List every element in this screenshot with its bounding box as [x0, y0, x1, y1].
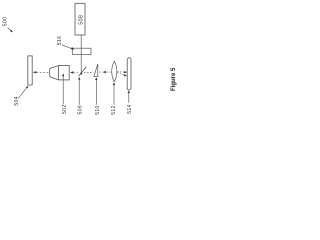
label 502 [62, 74, 68, 115]
mirror 506 diagonal [79, 67, 87, 77]
label 506 [77, 77, 83, 115]
label 504 [14, 86, 29, 106]
plate 504 [28, 56, 32, 85]
svg-text:502: 502 [62, 104, 68, 114]
lens 512 [112, 61, 117, 82]
svg-text:Figure 5: Figure 5 [171, 67, 177, 91]
dashed beam 502 to plate 504 with arrowhead [33, 71, 50, 73]
svg-text:508: 508 [78, 15, 84, 25]
svg-text:510: 510 [95, 105, 101, 115]
label 512 [111, 82, 117, 114]
prism 510 [94, 64, 98, 76]
wire: beam from 508 down to 516 [80, 35, 82, 48]
plate 514 [127, 58, 131, 90]
svg-text:516: 516 [57, 36, 63, 46]
svg-text:504: 504 [14, 96, 20, 106]
label 510 [95, 77, 101, 114]
wire: beam 516 down to mirror junction [80, 48, 82, 75]
dashed beam prism to lens 512 with arrowhead [99, 71, 111, 73]
dashed beam mirror to 502 with arrowhead [70, 71, 79, 73]
svg-text:514: 514 [127, 104, 133, 114]
detector 502 body [50, 65, 70, 80]
label 500 [2, 17, 13, 33]
component 516 rectangle [72, 48, 91, 54]
svg-text:500: 500 [2, 17, 8, 27]
label 514 [127, 90, 133, 113]
box 508 light source [75, 3, 85, 35]
svg-text:512: 512 [111, 105, 117, 115]
dashed rays lens to plate 514 with arrowheads [117, 71, 127, 77]
dashed beam mirror to prism 510 [84, 72, 93, 74]
label 516 [57, 36, 74, 50]
svg-text:506: 506 [77, 105, 83, 115]
